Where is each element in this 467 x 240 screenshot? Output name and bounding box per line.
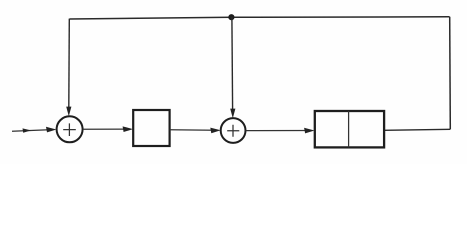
arrowhead into register B2 [304,128,314,134]
arrowhead into adder U2 top [230,109,235,119]
arrowhead into box B1 [123,126,133,132]
wire feedback right vertical [449,17,452,130]
arrowhead small input [23,128,32,132]
adder U2 [221,118,246,143]
wire feedback middle vertical [231,17,234,109]
register B2 outer box [315,111,384,147]
wire adder U2 to register B2 [246,130,310,132]
wire adder U1 to box B1 [83,128,128,130]
plus sign U1 [63,123,76,136]
arrowhead into adder U2 [210,128,220,134]
arrowhead into adder U1 top [66,107,71,117]
wire feedback left vertical [68,19,71,107]
box B1 [133,110,169,146]
wire register output to feedback [384,129,450,130]
wire feedback top horizontal [70,17,450,19]
node A junction dot [228,14,234,20]
plus sign U2 [227,125,239,137]
arrowhead input into adder U1 [46,127,56,133]
wire input [12,130,52,132]
wire box B1 to adder U2 [170,129,215,132]
adder U1 [57,116,83,142]
register B2 divider [348,111,350,147]
